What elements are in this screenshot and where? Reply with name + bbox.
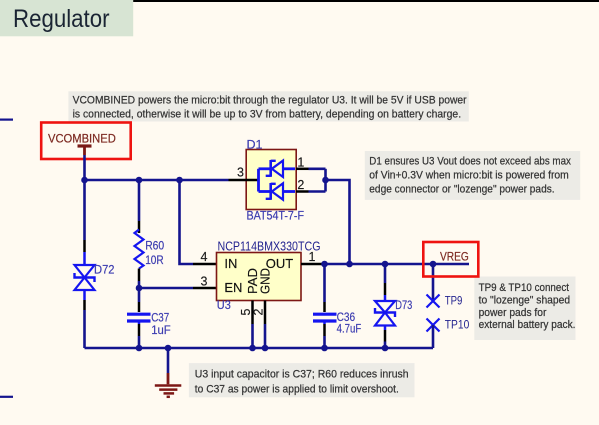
svg-text:3: 3	[237, 166, 244, 180]
junction dot OUT at D1 feed	[346, 261, 353, 268]
junction dot top bus at VCOMBINED	[81, 177, 88, 184]
svg-text:TP9 & TP10 connect: TP9 & TP10 connect	[479, 282, 569, 294]
test point TP9 cross	[427, 295, 440, 308]
junction dot top bus at R60 branch	[136, 177, 143, 184]
junction dot OUT at D73	[382, 261, 389, 268]
svg-text:R60: R60	[145, 238, 164, 252]
svg-text:U3 input capacitor is C37; R60: U3 input capacitor is C37; R60 reduces i…	[195, 368, 409, 380]
D1 pin 3 black stub	[229, 179, 259, 182]
red highlight box around VCOMBINED	[41, 123, 131, 160]
wire D72 to bottom bus	[83, 310, 86, 348]
svg-text:VREG: VREG	[440, 252, 469, 264]
top border line	[133, 0, 599, 2]
U3 GND pin wire	[264, 324, 267, 348]
wire OUT bus	[325, 263, 470, 266]
svg-text:U3: U3	[217, 298, 231, 312]
junction dot top bus at IN branch	[176, 177, 183, 184]
svg-text:4.7uF: 4.7uF	[337, 322, 362, 336]
svg-text:IN: IN	[224, 256, 237, 271]
svg-text:VCOMBINED powers the micro:bit: VCOMBINED powers the micro:bit through t…	[73, 94, 467, 106]
wire D1 pin2 to join	[309, 190, 326, 193]
U3 GND pin stub	[264, 301, 267, 325]
wire stub left bottom	[0, 396, 13, 398]
wire VREG branch down to TP9	[432, 264, 435, 301]
wire TP10 down to bottom bus	[432, 325, 435, 348]
junction dot bottom bus at GND	[262, 345, 269, 352]
svg-text:2: 2	[297, 178, 304, 192]
wire D1 pin1 to join	[309, 168, 326, 171]
svg-text:BAT54T-7-F: BAT54T-7-F	[247, 209, 305, 223]
D1 schottky diode bottom	[259, 183, 296, 200]
pin IN black stub	[193, 263, 217, 266]
U3 OUT pin stub	[301, 263, 325, 266]
svg-text:to "lozenge" shaped: to "lozenge" shaped	[479, 295, 570, 307]
diode D1 body box	[246, 150, 296, 210]
svg-text:D1: D1	[247, 138, 263, 152]
junction dot D1 join	[322, 177, 329, 184]
svg-text:EN: EN	[224, 280, 242, 295]
U3 PAD pin stub	[251, 301, 254, 325]
wire vertical from top bus to D72	[83, 180, 86, 240]
note block 2 background	[365, 151, 580, 200]
pin EN black stub	[193, 287, 217, 290]
capacitor C36	[313, 264, 337, 348]
D1 internal common vertical	[257, 169, 260, 192]
note block 3 background	[474, 277, 575, 341]
junction dot bottom bus at D73	[382, 345, 389, 352]
wire D1 join vertical	[324, 169, 327, 192]
ground symbol	[155, 348, 182, 397]
D1 pin 2 stub	[296, 190, 309, 193]
svg-text:VCOMBINED: VCOMBINED	[48, 133, 116, 145]
power port VCOMBINED bar and stem	[78, 146, 92, 155]
svg-text:is connected, otherwise it wil: is connected, otherwise it will be up to…	[73, 108, 462, 120]
svg-text:D72: D72	[94, 263, 115, 277]
svg-text:external battery pack.: external battery pack.	[479, 319, 576, 331]
junction dot OUT at VREG	[430, 261, 437, 268]
D1 pin 1 stub	[296, 168, 309, 171]
wire EN junction to U3 EN pin	[139, 287, 193, 290]
red highlight box around VREG	[423, 242, 478, 277]
junction dot OUT at C36	[321, 261, 328, 268]
D1 schottky diode top	[259, 160, 296, 177]
capacitor C37	[127, 288, 151, 348]
junction dot bottom bus at C36	[321, 345, 328, 352]
note block 4 background	[189, 363, 415, 397]
TVS diode D73	[375, 264, 395, 348]
svg-text:D73: D73	[395, 298, 412, 312]
svg-text:Regulator: Regulator	[13, 5, 110, 33]
svg-text:TP10: TP10	[445, 317, 470, 331]
U3 PAD pin wire	[251, 324, 254, 348]
svg-text:1: 1	[309, 250, 316, 264]
svg-text:to C37 as power is applied to: to C37 as power is applied to limit over…	[195, 383, 399, 395]
svg-text:edge connector or "lozenge" po: edge connector or "lozenge" power pads.	[369, 184, 554, 196]
resistor R60	[135, 180, 144, 288]
note block 1 background	[68, 91, 468, 121]
regulator U3 body box	[217, 253, 302, 301]
svg-text:TP9: TP9	[445, 294, 463, 308]
test point TP10 cross	[427, 319, 440, 332]
svg-text:3: 3	[201, 274, 208, 288]
junction dot bottom bus at PAD	[249, 345, 256, 352]
svg-text:NCP114BMX330TCG: NCP114BMX330TCG	[218, 239, 321, 254]
wire stub left top	[0, 118, 13, 120]
wire top bus	[85, 179, 229, 182]
svg-text:power pads for: power pads for	[479, 307, 547, 319]
svg-text:D1 ensures U3 Vout does not ex: D1 ensures U3 Vout does not exceed abs m…	[369, 155, 571, 167]
svg-text:1uF: 1uF	[151, 323, 171, 337]
svg-text:4: 4	[201, 250, 208, 264]
title bar green box	[0, 0, 133, 36]
TVS diode D72	[75, 240, 95, 310]
svg-text:10R: 10R	[145, 253, 164, 267]
junction dot EN node	[136, 285, 143, 292]
wire D1 join to down corner	[326, 180, 350, 264]
svg-text:1: 1	[297, 156, 304, 170]
svg-text:GND: GND	[257, 268, 272, 294]
wire VCOMBINED stem down to top bus	[83, 155, 86, 180]
wire IN branch from top bus	[180, 180, 194, 264]
svg-text:of Vin+0.3V when micro:bit is: of Vin+0.3V when micro:bit is powered fr…	[369, 170, 569, 182]
wire bottom bus	[85, 347, 434, 350]
junction dot bottom bus at ground	[165, 345, 172, 352]
junction dot bottom bus at C37	[136, 345, 143, 352]
